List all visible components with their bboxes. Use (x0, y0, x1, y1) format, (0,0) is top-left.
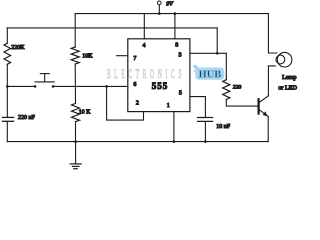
wire left rail upper (6, 28, 8, 43)
resistor R3 10K lower (72, 104, 80, 122)
svg-text:4: 4 (143, 43, 146, 49)
svg-text:or LED: or LED (278, 84, 297, 91)
svg-text:220 nF: 220 nF (18, 115, 36, 121)
wire pin5 to C2 (190, 97, 206, 117)
junction pushbutton left terminal (34, 85, 37, 88)
wire pin7 stub (117, 55, 128, 57)
junction pin1 on bottom bus (173, 140, 176, 143)
transistor Q1 emitter arrow (263, 111, 268, 116)
wire pin8 to top bus (174, 14, 176, 39)
svg-text:220K: 220K (11, 45, 25, 51)
wire pin4 to top bus (143, 14, 145, 39)
ground symbol (70, 164, 81, 169)
wire C2 to bottom bus (204, 122, 206, 142)
svg-text:10 K: 10 K (79, 110, 92, 116)
svg-text:Lamp: Lamp (282, 74, 296, 81)
wire between 10K resistors (74, 64, 76, 104)
capacitor C2 10 nF (198, 117, 213, 119)
wire second bus (7, 27, 217, 29)
junction 9V stem on bus (158, 12, 161, 15)
svg-text:ELECTRONICS: ELECTRONICS (107, 69, 185, 82)
wire ground stem (75, 142, 77, 164)
wire cap to bottom bus (6, 122, 8, 142)
transistor Q1 collector (259, 96, 269, 103)
watermark logo blob (193, 65, 201, 76)
wire pin1 to bottom bus (173, 112, 175, 142)
svg-text:1: 1 (167, 103, 170, 109)
wire 10K lower to bottom bus (75, 122, 77, 142)
pushbutton S1 stem (44, 74, 46, 82)
wire supply to lamp (268, 14, 277, 53)
svg-text:7: 7 (133, 56, 136, 62)
wire bottom ground bus (7, 141, 268, 143)
svg-text:10K: 10K (82, 53, 93, 59)
wire left rail lower (6, 64, 8, 117)
svg-text:8: 8 (175, 42, 178, 48)
wire trigger route pin2 to pin6 node (107, 86, 144, 120)
wire emitter to bottom bus (267, 117, 269, 142)
wire pin3 output (190, 52, 226, 54)
wire lamp to collector (268, 66, 275, 96)
transistor Q1 base bar (258, 99, 260, 113)
wire 220 to base (226, 100, 258, 107)
junction pin3 node (216, 52, 219, 55)
svg-text:HUB: HUB (199, 70, 222, 81)
svg-text:6: 6 (133, 82, 136, 88)
wire pin3 riser from second bus (216, 28, 218, 53)
junction pin8 on bus (174, 12, 177, 15)
junction pin6 node (105, 85, 108, 88)
svg-text:10 nF: 10 nF (216, 124, 231, 130)
svg-text:220: 220 (233, 84, 242, 90)
wire pushbutton left segment (7, 85, 35, 87)
pushbutton S1 cap (40, 73, 49, 75)
lamp DS1 bulb circle (277, 52, 292, 67)
svg-text:2: 2 (136, 100, 139, 106)
lamp small circle (276, 55, 285, 64)
junction pushbutton right terminal (52, 85, 55, 88)
watermark HUB badge (195, 68, 224, 80)
capacitor C1 220 nF (2, 116, 13, 118)
resistor R1 220K (4, 43, 11, 64)
svg-text:3: 3 (179, 53, 182, 59)
svg-text:9V: 9V (166, 2, 174, 8)
junction left rail / button wire (6, 85, 9, 88)
resistor R2 10K upper (71, 47, 79, 64)
svg-text:5: 5 (179, 91, 182, 97)
pushbutton S1 bridge (35, 81, 54, 83)
battery terminal 9V circle (157, 1, 161, 5)
resistor R4 220 (223, 80, 230, 100)
wire 9V stem (158, 5, 160, 14)
wire 220 top lead (225, 53, 227, 79)
junction C2 on bottom bus (204, 140, 207, 143)
wire pushbutton right segment to IC pin6 (53, 85, 128, 87)
wire top supply bus (75, 13, 268, 15)
svg-text:555: 555 (152, 81, 169, 91)
IC U1 555 timer body (128, 39, 190, 112)
watermark ELECTRONICS (107, 69, 185, 82)
wire 10K rail from top bus (74, 14, 76, 47)
junction ground on bus (74, 140, 77, 143)
transistor Q1 emitter (259, 109, 269, 116)
